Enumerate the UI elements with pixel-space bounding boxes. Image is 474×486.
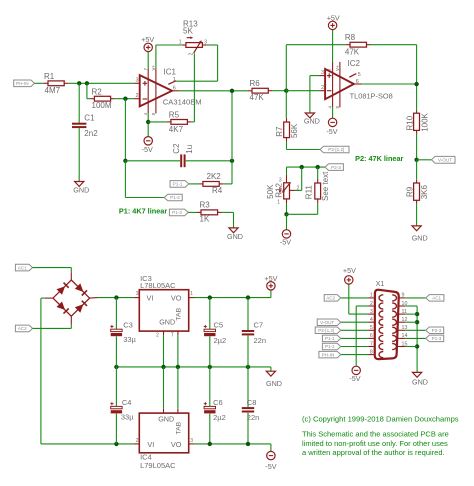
svg-text:R8: R8 — [345, 33, 356, 42]
svg-text:IC2: IC2 — [348, 59, 361, 68]
svg-text:P2: 47K linear: P2: 47K linear — [355, 154, 403, 163]
svg-text:6: 6 — [370, 333, 373, 339]
svg-text:V-OUT: V-OUT — [438, 158, 452, 163]
svg-text:C7: C7 — [254, 321, 264, 330]
svg-text:VO: VO — [171, 440, 182, 449]
svg-text:VI: VI — [147, 294, 154, 303]
svg-text:5: 5 — [358, 72, 361, 78]
svg-text:P1: 4K7 linear: P1: 4K7 linear — [119, 207, 167, 216]
svg-text:R7: R7 — [275, 126, 284, 137]
svg-text:C3: C3 — [123, 321, 133, 330]
svg-text:GND: GND — [412, 234, 428, 243]
svg-text:P1-2: P1-2 — [325, 344, 335, 349]
svg-text:GND: GND — [412, 378, 428, 387]
svg-text:9: 9 — [402, 293, 405, 299]
svg-text:C5: C5 — [214, 321, 224, 330]
svg-text:1: 1 — [277, 200, 280, 206]
svg-text:R12: R12 — [274, 182, 283, 197]
svg-text:VO: VO — [171, 294, 182, 303]
svg-text:P1-3: P1-3 — [432, 336, 442, 341]
svg-text:2: 2 — [136, 93, 139, 99]
svg-text:56K: 56K — [290, 123, 299, 138]
svg-text:2n2: 2n2 — [84, 129, 98, 138]
svg-text:GND: GND — [158, 415, 174, 424]
svg-text:2µ2: 2µ2 — [214, 336, 227, 345]
svg-text:R11: R11 — [304, 185, 313, 200]
svg-text:1: 1 — [179, 40, 182, 46]
svg-text:3: 3 — [190, 438, 193, 444]
svg-text:P1-2: P1-2 — [170, 195, 180, 200]
svg-text:X1: X1 — [376, 279, 385, 288]
svg-text:-5V: -5V — [280, 238, 291, 247]
svg-text:R9: R9 — [405, 186, 414, 197]
svg-text:IC1: IC1 — [164, 67, 177, 76]
svg-text:R4: R4 — [212, 186, 223, 195]
svg-text:1u: 1u — [185, 145, 194, 154]
svg-text:3: 3 — [204, 40, 207, 46]
svg-text:-5V: -5V — [349, 374, 360, 383]
svg-text:This Schematic and the associa: This Schematic and the associated PCB ar… — [302, 429, 449, 438]
svg-text:P2-[1,2]: P2-[1,2] — [318, 328, 334, 333]
svg-text:C4: C4 — [122, 398, 132, 407]
svg-text:47K: 47K — [250, 93, 265, 102]
svg-text:See text: See text — [321, 171, 330, 201]
svg-text:33µ: 33µ — [123, 335, 136, 344]
svg-text:5K: 5K — [183, 26, 193, 35]
svg-text:100K: 100K — [420, 112, 429, 131]
svg-text:C8: C8 — [247, 398, 257, 407]
svg-text:C6: C6 — [213, 398, 223, 407]
svg-text:V-OUT: V-OUT — [320, 320, 334, 325]
svg-text:GND: GND — [304, 116, 320, 125]
svg-text:22n: 22n — [254, 336, 267, 345]
svg-text:AC2: AC2 — [326, 296, 335, 301]
svg-text:R3: R3 — [200, 201, 211, 210]
svg-text:P1-1: P1-1 — [325, 336, 335, 341]
svg-text:AC2: AC2 — [18, 326, 27, 331]
svg-text:PH-IN: PH-IN — [322, 352, 335, 357]
svg-text:V+: V+ — [151, 64, 156, 70]
svg-text:(c) Copyright 1999-2018 Damien: (c) Copyright 1999-2018 Damien Douxchamp… — [302, 415, 459, 424]
svg-text:2µ2: 2µ2 — [213, 413, 226, 422]
svg-text:R10: R10 — [406, 115, 415, 130]
svg-text:T: T — [171, 333, 174, 339]
svg-text:3: 3 — [321, 70, 324, 76]
svg-text:a written approval of the auth: a written approval of the author is requ… — [302, 448, 445, 457]
svg-text:R6: R6 — [250, 79, 261, 88]
svg-text:1: 1 — [190, 291, 193, 297]
svg-text:R5: R5 — [169, 111, 180, 120]
svg-text:C2: C2 — [172, 143, 181, 154]
svg-text:3: 3 — [279, 177, 282, 183]
svg-text:2: 2 — [370, 301, 373, 307]
svg-text:+5V: +5V — [343, 266, 356, 275]
svg-text:+5V: +5V — [264, 274, 277, 283]
svg-text:C1: C1 — [84, 114, 95, 123]
svg-text:-5V: -5V — [326, 127, 337, 136]
svg-text:-5V: -5V — [142, 145, 153, 154]
svg-text:V+: V+ — [335, 65, 340, 71]
svg-text:2K2: 2K2 — [207, 172, 222, 181]
svg-text:+5V: +5V — [141, 35, 154, 44]
svg-text:TAB: TAB — [175, 421, 182, 434]
svg-text:L78L05AC: L78L05AC — [140, 281, 176, 290]
svg-text:47K: 47K — [345, 47, 360, 56]
svg-text:2: 2 — [156, 333, 159, 339]
svg-text:2: 2 — [136, 438, 139, 444]
svg-text:AC1: AC1 — [432, 296, 441, 301]
svg-text:+5V: +5V — [327, 13, 340, 22]
svg-text:3K6: 3K6 — [420, 185, 429, 200]
svg-text:TAB: TAB — [175, 307, 182, 320]
svg-text:1: 1 — [370, 293, 373, 299]
svg-text:GND: GND — [159, 318, 175, 327]
svg-text:2: 2 — [321, 85, 324, 91]
svg-text:4K7: 4K7 — [169, 125, 184, 134]
svg-text:1K: 1K — [200, 215, 210, 224]
svg-text:4: 4 — [370, 317, 373, 323]
svg-text:3: 3 — [136, 291, 139, 297]
svg-text:GND: GND — [73, 186, 89, 195]
svg-text:GND: GND — [266, 379, 282, 388]
svg-text:8: 8 — [370, 349, 373, 355]
svg-text:4M7: 4M7 — [45, 86, 61, 95]
svg-text:TL081P-SO8: TL081P-SO8 — [350, 92, 393, 101]
svg-text:PH-IN: PH-IN — [16, 81, 29, 86]
svg-text:R1: R1 — [44, 72, 55, 81]
svg-text:GND: GND — [227, 232, 243, 241]
svg-text:P1-1: P1-1 — [173, 182, 183, 187]
svg-text:P2-3: P2-3 — [331, 165, 341, 170]
svg-text:P1-3: P1-3 — [172, 210, 182, 215]
svg-text:P2-3: P2-3 — [432, 328, 442, 333]
svg-text:3: 3 — [370, 309, 373, 315]
svg-text:22n: 22n — [247, 413, 260, 422]
svg-text:VI: VI — [147, 440, 154, 449]
svg-text:-5V: -5V — [265, 462, 276, 471]
svg-text:AC1: AC1 — [18, 265, 27, 270]
svg-text:CA3140EM: CA3140EM — [163, 97, 202, 106]
svg-text:3: 3 — [136, 77, 139, 83]
svg-text:P2-[1,2]: P2-[1,2] — [328, 147, 344, 152]
svg-text:7: 7 — [370, 341, 373, 347]
svg-text:R2: R2 — [92, 88, 103, 97]
svg-text:L79L05AC: L79L05AC — [140, 461, 176, 470]
svg-text:33µ: 33µ — [121, 412, 134, 421]
svg-text:50K: 50K — [266, 184, 275, 199]
svg-text:100M: 100M — [92, 101, 112, 110]
svg-text:limited to non-profit use only: limited to non-profit use only. For othe… — [302, 439, 448, 448]
svg-text:5: 5 — [370, 325, 373, 331]
